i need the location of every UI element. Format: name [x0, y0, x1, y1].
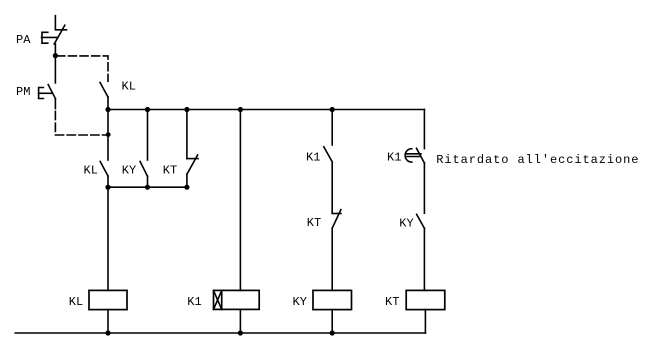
svg-text:KT: KT [307, 216, 321, 230]
wire PA to PM [54, 44, 56, 83]
wire coil KT to bottom rail [424, 310, 426, 333]
coil K1 (with delay element box) [214, 290, 260, 309]
svg-text:KL: KL [69, 295, 83, 309]
svg-text:KT: KT [385, 295, 399, 309]
svg-text:KY: KY [293, 295, 307, 309]
contact KT (NC delayed, branch3) [332, 210, 341, 291]
node rail-KL [105, 185, 110, 190]
wire coil KL to bottom rail [107, 310, 109, 333]
svg-text:KY: KY [122, 164, 136, 178]
svg-text:KL: KL [84, 164, 98, 178]
svg-text:PM: PM [16, 85, 30, 99]
wire bus to coil K1 [239, 110, 241, 291]
svg-text:KY: KY [399, 217, 413, 231]
dashed mechanical link bottom (PM to node) [55, 111, 107, 135]
contact KL (NO, seal-in group) [100, 162, 108, 188]
wire bottom rail [15, 332, 425, 334]
pushbutton PM (NO contact with actuator) [39, 85, 56, 99]
node rail-KY [145, 185, 150, 190]
wire left vertical bus to contact [107, 110, 109, 161]
wire mid rail [108, 186, 187, 188]
node dashed-link junction [106, 132, 111, 137]
contact KY (NO, group) [140, 162, 147, 188]
dashed mechanical link top (PA to KL contact) [57, 56, 108, 81]
node bottom-KY [330, 330, 335, 335]
svg-text:K1: K1 [187, 295, 201, 309]
svg-text:KL: KL [122, 80, 136, 94]
wire top bus [108, 109, 424, 111]
contact KL (NO, top) [100, 82, 108, 109]
node bottom-K1 [238, 330, 243, 335]
svg-text:K1: K1 [306, 150, 320, 164]
node bottom-KL [105, 330, 110, 335]
wire KY branch vertical [147, 110, 149, 161]
contact K1 (NO on-delay, branch4) [405, 148, 424, 213]
node bus-KT [184, 107, 189, 112]
node bus-branch3 [330, 107, 335, 112]
node bus-KL [105, 107, 110, 112]
wire PM bottom [54, 99, 56, 109]
node bus-KY [145, 107, 150, 112]
wire branch3 bus to K1 contact [331, 110, 333, 146]
coil KT [406, 290, 445, 309]
wire rail to coil KL [107, 187, 109, 290]
wire branch4 from bus corner down [423, 110, 425, 149]
node rail-KT [184, 185, 189, 190]
pushbutton PA (NC contact with actuator) [42, 16, 67, 44]
wire coil K1 to bottom rail [239, 309, 241, 333]
node bus-K1coil [238, 107, 243, 112]
svg-text:KT: KT [163, 164, 177, 178]
contact KT (NC, group) [187, 155, 198, 187]
contact KY (NO, branch4) [417, 214, 425, 290]
wire coil KY to bottom rail [331, 310, 333, 333]
svg-text:PA: PA [16, 33, 31, 47]
contact K1 (NO, branch3) [324, 147, 332, 213]
svg-text:K1: K1 [387, 150, 401, 164]
coil KL [89, 290, 127, 309]
coil KY [313, 290, 352, 309]
svg-text:Ritardato all'eccitazione: Ritardato all'eccitazione [436, 153, 639, 167]
wire KT branch vertical [186, 110, 188, 159]
node junction PA/dashed-link [53, 53, 58, 58]
